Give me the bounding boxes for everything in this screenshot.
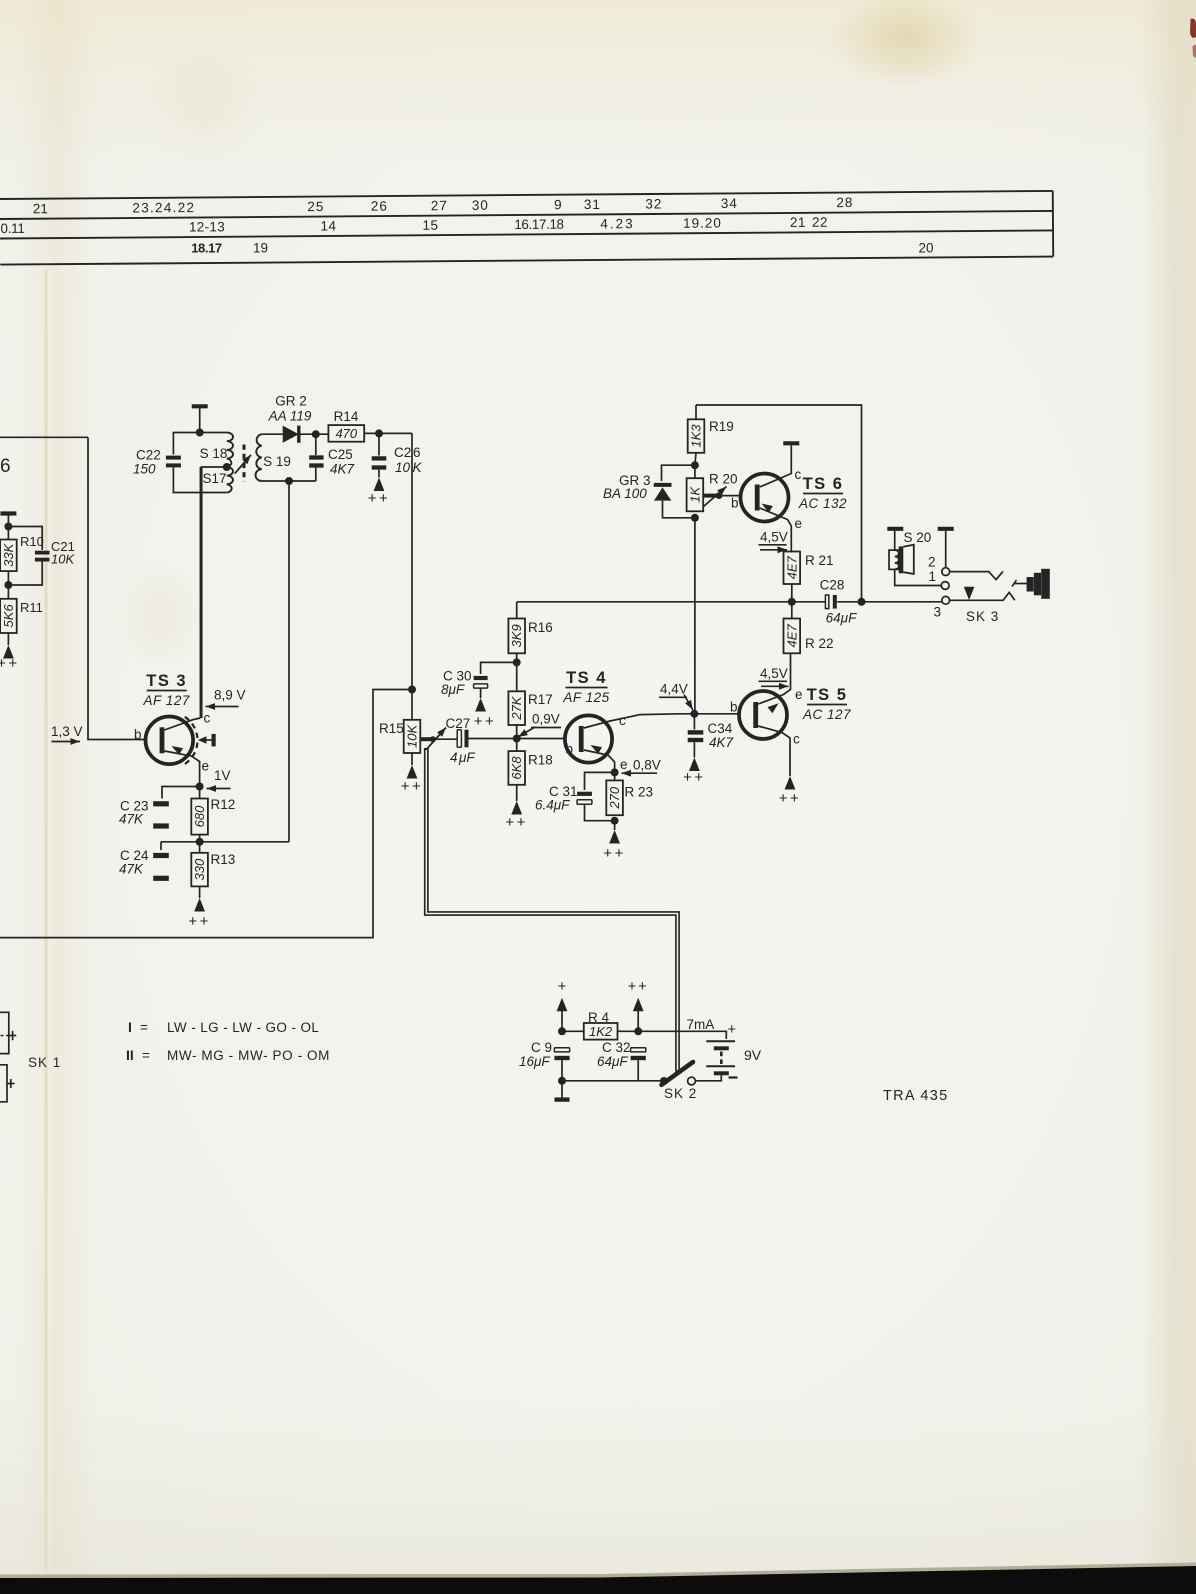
switch SK1 contact b bbox=[0, 1065, 7, 1102]
svg-text:R 23: R 23 bbox=[625, 785, 654, 800]
transistor TS6 bbox=[741, 474, 789, 522]
svg-text:BA 100: BA 100 bbox=[603, 486, 647, 501]
svg-text:10K: 10K bbox=[405, 724, 420, 748]
junction TS4 emitter node bbox=[611, 768, 619, 776]
capacitor C9 bbox=[554, 1048, 569, 1052]
svg-text:4,4V: 4,4V bbox=[660, 682, 688, 697]
svg-text:9: 9 bbox=[554, 197, 562, 212]
wire R20 to TS5 base node bbox=[694, 518, 696, 714]
svg-text:C25: C25 bbox=[328, 447, 353, 462]
junction R20 bottom node bbox=[691, 514, 699, 522]
svg-text:64μF: 64μF bbox=[826, 611, 857, 626]
svg-text:16.17.18: 16.17.18 bbox=[514, 217, 563, 232]
wire TS4 collector to TS5 base bbox=[640, 713, 739, 716]
svg-text:6.4μF: 6.4μF bbox=[535, 798, 570, 813]
svg-text:e: e bbox=[620, 757, 628, 772]
wire base feed TS3 bbox=[88, 437, 146, 739]
wire TS4 base bbox=[469, 738, 566, 740]
power arrow ++ below C34 bbox=[689, 758, 700, 772]
svg-text:47K: 47K bbox=[119, 812, 144, 827]
svg-text:S 18: S 18 bbox=[200, 446, 228, 461]
svg-text:++: ++ bbox=[505, 814, 528, 831]
chassis bar above S18 bbox=[192, 404, 208, 408]
capacitor C26 bbox=[378, 433, 380, 455]
svg-text:R 20: R 20 bbox=[709, 472, 738, 487]
svg-text:++: ++ bbox=[368, 490, 391, 507]
svg-text:15: 15 bbox=[422, 218, 438, 233]
svg-text:b: b bbox=[566, 742, 574, 757]
svg-text:+: + bbox=[728, 1022, 736, 1038]
svg-text:14: 14 bbox=[320, 218, 336, 233]
svg-text:64μF: 64μF bbox=[597, 1054, 628, 1069]
svg-text:R17: R17 bbox=[528, 692, 553, 707]
jack SK3 spring contact 3 bbox=[950, 592, 1015, 600]
potentiometer R15 bbox=[411, 690, 413, 720]
svg-text:++: ++ bbox=[401, 778, 424, 795]
svg-text:C34: C34 bbox=[708, 721, 733, 736]
wire R12 junction crossrail bbox=[161, 841, 289, 843]
jack SK3 contact 3 bbox=[942, 596, 950, 604]
svg-text:R19: R19 bbox=[709, 419, 734, 434]
transistor TS5 bbox=[739, 691, 787, 739]
svg-text:SK 3: SK 3 bbox=[966, 609, 999, 624]
resistor R22 bbox=[791, 602, 793, 619]
wire supply top bbox=[696, 405, 862, 602]
junction R10 top node bbox=[4, 523, 12, 531]
junction R23 bottom node bbox=[611, 817, 619, 825]
svg-text:0,8V: 0,8V bbox=[633, 758, 661, 773]
svg-text:++: ++ bbox=[779, 790, 802, 807]
junction rail output node bbox=[858, 598, 866, 606]
svg-text:4K7: 4K7 bbox=[330, 462, 355, 477]
svg-text:21: 21 bbox=[790, 215, 806, 230]
svg-text:28: 28 bbox=[836, 195, 853, 210]
svg-text:c: c bbox=[204, 711, 211, 726]
power arrow ++ below TS5 bbox=[785, 776, 796, 790]
svg-text:6: 6 bbox=[413, 445, 421, 460]
svg-text:1K2: 1K2 bbox=[589, 1024, 613, 1039]
svg-text:AC 132: AC 132 bbox=[798, 496, 847, 511]
svg-text:9V: 9V bbox=[744, 1047, 762, 1063]
switch SK1 contact a bbox=[0, 1012, 9, 1053]
power arrow ++ below C26 bbox=[374, 478, 385, 492]
svg-text:TS 6: TS 6 bbox=[803, 475, 844, 493]
junction S19 return node bbox=[285, 477, 293, 485]
svg-text:=: = bbox=[140, 1020, 148, 1035]
svg-text:18.17: 18.17 bbox=[191, 241, 222, 256]
coil S19 bbox=[256, 434, 262, 481]
resistor R4 bbox=[562, 1030, 584, 1032]
svg-text:4K7: 4K7 bbox=[709, 735, 734, 750]
capacitor C32 bbox=[631, 1048, 646, 1052]
mechanical link R15 to SK2 bbox=[426, 748, 677, 1072]
svg-text:MW- MG - MW- PO - OM: MW- MG - MW- PO - OM bbox=[167, 1048, 330, 1063]
svg-text:19.20: 19.20 bbox=[683, 215, 722, 230]
junction TS5 base node bbox=[690, 710, 698, 718]
svg-text:AF 127: AF 127 bbox=[143, 693, 190, 708]
resistor R19 bbox=[695, 405, 697, 419]
headphone plug bbox=[1014, 583, 1028, 585]
resistor R14 bbox=[328, 425, 364, 442]
svg-text:23.24.22: 23.24.22 bbox=[132, 200, 195, 215]
wire S19 return down bbox=[288, 481, 290, 842]
svg-text:8μF: 8μF bbox=[441, 682, 465, 697]
resistor R18 bbox=[508, 751, 525, 785]
svg-text:4,5V: 4,5V bbox=[760, 666, 788, 681]
wire R16 to junction bbox=[516, 653, 518, 691]
svg-text:R11: R11 bbox=[20, 600, 43, 615]
svg-text:C 32: C 32 bbox=[602, 1040, 631, 1055]
svg-text:e: e bbox=[795, 687, 803, 702]
svg-text:R 4: R 4 bbox=[588, 1010, 610, 1025]
svg-text:R10: R10 bbox=[20, 534, 44, 549]
svg-text:SK 1: SK 1 bbox=[28, 1055, 61, 1070]
svg-text:7mA: 7mA bbox=[687, 1017, 715, 1032]
junction coil top node bbox=[196, 429, 204, 437]
junction detector node bbox=[312, 430, 320, 438]
svg-text:R 22: R 22 bbox=[805, 636, 834, 651]
svg-text:25: 25 bbox=[307, 199, 324, 214]
jack SK3 contact 1 bbox=[941, 582, 949, 590]
capacitor C31 bbox=[585, 772, 615, 790]
svg-text:1K3: 1K3 bbox=[689, 424, 704, 448]
power arrow ++ below R23 bbox=[614, 821, 616, 830]
junction R19 R20 node bbox=[691, 461, 699, 469]
svg-text:b: b bbox=[731, 496, 739, 511]
svg-text:c: c bbox=[619, 713, 626, 728]
svg-text:680: 680 bbox=[192, 805, 207, 827]
resistor R13 bbox=[199, 842, 201, 853]
svg-text:LW - LG - LW - GO - OL: LW - LG - LW - GO - OL bbox=[167, 1020, 319, 1035]
power arrow ++ below R11 bbox=[7, 633, 9, 645]
svg-text:=: = bbox=[142, 1048, 150, 1063]
red corner mark bbox=[1190, 19, 1196, 38]
svg-text:C2: C2 bbox=[394, 445, 411, 460]
jack SK3 spring contact 2 bbox=[950, 571, 1003, 579]
svg-text:++: ++ bbox=[0, 655, 20, 672]
chassis bar above S20 bbox=[887, 527, 903, 531]
capacitor C28 bbox=[825, 595, 828, 609]
svg-text:S17: S17 bbox=[202, 471, 226, 486]
junction coil tap bbox=[223, 463, 231, 471]
svg-text:AC 127: AC 127 bbox=[802, 707, 851, 722]
power arrow ++ below R15 bbox=[411, 753, 413, 765]
svg-text:TS 5: TS 5 bbox=[807, 686, 848, 704]
capacitor C22 bbox=[173, 433, 199, 455]
wire table line 4 bbox=[0, 257, 1053, 265]
junction C9 top node bbox=[558, 1027, 566, 1035]
svg-text:26: 26 bbox=[371, 199, 388, 214]
svg-text:AF 125: AF 125 bbox=[562, 690, 609, 705]
svg-text:4.23: 4.23 bbox=[600, 216, 634, 231]
wire R17 to base node bbox=[516, 725, 518, 751]
power arrow ++ below C30 bbox=[480, 688, 482, 698]
svg-text:4: 4 bbox=[450, 750, 458, 765]
transistor TS4 bbox=[565, 715, 612, 762]
svg-text:R18: R18 bbox=[528, 753, 553, 768]
svg-text:b: b bbox=[134, 727, 142, 742]
svg-text:μF: μF bbox=[458, 750, 475, 765]
svg-text:6K8: 6K8 bbox=[509, 756, 524, 780]
svg-text:R13: R13 bbox=[211, 852, 236, 867]
wire table line 3 bbox=[0, 230, 1053, 238]
wire S17 tap to TS3 collector bbox=[202, 467, 227, 718]
diode GR2 bbox=[283, 426, 299, 443]
svg-text:0.11: 0.11 bbox=[0, 221, 24, 236]
svg-text:SK 2: SK 2 bbox=[664, 1086, 697, 1101]
core line bbox=[243, 445, 246, 482]
svg-text:e: e bbox=[202, 759, 210, 774]
svg-text:++: ++ bbox=[628, 979, 649, 995]
svg-text:2: 2 bbox=[928, 555, 936, 570]
svg-text:30: 30 bbox=[472, 198, 489, 213]
svg-text:e: e bbox=[795, 516, 803, 531]
svg-text:C22: C22 bbox=[136, 448, 161, 463]
jack SK3 moving contact bbox=[964, 587, 975, 600]
svg-text:++: ++ bbox=[683, 769, 706, 786]
power arrow ++ below R13 bbox=[199, 886, 201, 898]
svg-text:TS 3: TS 3 bbox=[146, 672, 187, 690]
junction rail R21 node bbox=[788, 598, 796, 606]
svg-text:TS 4: TS 4 bbox=[566, 669, 607, 687]
capacitor C24 bbox=[160, 842, 162, 850]
wire table right edge bbox=[1052, 191, 1055, 257]
svg-text:R14: R14 bbox=[334, 409, 359, 424]
svg-text:270: 270 bbox=[607, 786, 622, 809]
chassis bar below C9 bbox=[561, 1081, 563, 1098]
power arrow ++ below R18 bbox=[516, 785, 518, 801]
svg-text:20: 20 bbox=[918, 241, 933, 256]
svg-text:0,9V: 0,9V bbox=[532, 712, 560, 727]
svg-text:22: 22 bbox=[812, 215, 828, 230]
wire table line 1 bbox=[0, 191, 1053, 199]
svg-text:21: 21 bbox=[33, 201, 48, 216]
svg-text:R15: R15 bbox=[379, 721, 404, 736]
resistor R21 bbox=[784, 552, 801, 585]
svg-text:47K: 47K bbox=[119, 862, 144, 877]
svg-text:27K: 27K bbox=[509, 695, 524, 720]
svg-text:27: 27 bbox=[431, 198, 448, 213]
svg-text:19: 19 bbox=[253, 241, 268, 256]
svg-text:150: 150 bbox=[133, 462, 156, 477]
svg-text:C27: C27 bbox=[446, 716, 471, 731]
svg-text:330: 330 bbox=[192, 858, 207, 880]
svg-text:4E7: 4E7 bbox=[784, 555, 799, 579]
svg-text:3K9: 3K9 bbox=[509, 624, 524, 647]
svg-text:1V: 1V bbox=[214, 768, 231, 783]
svg-text:33K: 33K bbox=[1, 542, 16, 566]
svg-text:3: 3 bbox=[933, 605, 941, 620]
main output rail bbox=[517, 601, 827, 603]
svg-text:+: + bbox=[558, 979, 566, 995]
capacitor C21 bbox=[8, 527, 42, 551]
junction C9 bottom node bbox=[558, 1077, 566, 1085]
svg-text:31: 31 bbox=[584, 197, 601, 212]
junction R14 out node bbox=[375, 429, 383, 437]
junction TS3 emitter node bbox=[196, 783, 204, 791]
chassis bar SK3 feed bbox=[938, 527, 954, 531]
wire SK2 rail bbox=[562, 1080, 664, 1082]
resistor R23 bbox=[614, 772, 616, 780]
coil S18 bbox=[200, 432, 227, 434]
junction C32 top node bbox=[634, 1027, 642, 1035]
junction R16 R17 node bbox=[513, 658, 521, 666]
svg-text:5K6: 5K6 bbox=[1, 604, 16, 628]
svg-text:S 20: S 20 bbox=[904, 530, 932, 545]
svg-text:1: 1 bbox=[928, 569, 936, 584]
shield TS3 bbox=[185, 717, 198, 764]
svg-text:C28: C28 bbox=[820, 578, 845, 593]
svg-text:S 19: S 19 bbox=[263, 454, 291, 469]
svg-text:8,9 V: 8,9 V bbox=[214, 688, 246, 703]
loudspeaker S20 bbox=[889, 550, 899, 569]
svg-text:6: 6 bbox=[0, 456, 11, 477]
wire TS6 base bbox=[719, 495, 741, 497]
svg-text:10: 10 bbox=[395, 460, 411, 475]
svg-text:++: ++ bbox=[188, 913, 211, 930]
switch SK2 bbox=[660, 1077, 668, 1085]
jack SK3 contact 2 bbox=[942, 568, 950, 576]
page bottom edge bbox=[0, 1566, 1196, 1594]
capacitor C25 bbox=[315, 434, 317, 455]
svg-text:16μF: 16μF bbox=[519, 1054, 550, 1069]
coil S17 bbox=[227, 467, 233, 493]
wire TS3 collector up bbox=[199, 467, 201, 718]
junction TS4 base node bbox=[513, 735, 521, 743]
chassis bar above R10 bbox=[0, 511, 16, 515]
svg-text:K: K bbox=[413, 460, 423, 475]
svg-text:I: I bbox=[128, 1019, 132, 1035]
resistor R17 bbox=[508, 691, 525, 725]
svg-text:1K: 1K bbox=[687, 486, 702, 503]
junction R10 bottom node bbox=[4, 581, 12, 589]
junction volume top node bbox=[408, 686, 416, 694]
svg-text:1,3 V: 1,3 V bbox=[51, 724, 83, 739]
resistor R20 bbox=[687, 478, 704, 511]
resistor R12 bbox=[199, 787, 201, 799]
svg-text:C 9: C 9 bbox=[531, 1040, 552, 1055]
wire table line 2 bbox=[0, 211, 1053, 219]
wire detector to volume control bbox=[411, 433, 413, 689]
svg-text:12-13: 12-13 bbox=[189, 219, 225, 234]
svg-text:b: b bbox=[730, 700, 738, 715]
diode GR3 bbox=[662, 465, 695, 481]
svg-text:R16: R16 bbox=[528, 620, 553, 635]
svg-text:c: c bbox=[795, 467, 802, 482]
svg-text:4E7: 4E7 bbox=[784, 624, 799, 648]
svg-text:TRA 435: TRA 435 bbox=[883, 1088, 949, 1104]
svg-text:470: 470 bbox=[335, 426, 357, 441]
svg-text:32: 32 bbox=[645, 196, 662, 211]
resistor R16 bbox=[516, 602, 518, 619]
wire S20 to SK3 contact 1 bbox=[895, 569, 942, 585]
resistor R11 bbox=[7, 571, 9, 599]
resistor R10 bbox=[7, 527, 9, 540]
junction R12 R13 node bbox=[196, 838, 204, 846]
wire left block top edge bbox=[0, 436, 88, 438]
wire R19 to R20 bbox=[695, 453, 696, 478]
svg-text:R12: R12 bbox=[211, 797, 236, 812]
wire R4 to battery bbox=[618, 1031, 727, 1039]
svg-text:4,5V: 4,5V bbox=[760, 530, 788, 545]
transistor TS3 bbox=[146, 717, 194, 765]
svg-text:R 21: R 21 bbox=[805, 553, 834, 568]
capacitor C34 bbox=[693, 714, 695, 730]
svg-text:II: II bbox=[126, 1047, 134, 1063]
svg-text:10K: 10K bbox=[51, 552, 75, 567]
svg-text:++: ++ bbox=[474, 713, 497, 730]
wire AVC return bbox=[0, 690, 412, 938]
capacitor C27 bbox=[433, 738, 457, 740]
capacitor C30 bbox=[481, 662, 517, 674]
svg-text:c: c bbox=[793, 732, 800, 747]
svg-text:34: 34 bbox=[721, 196, 738, 211]
svg-text:GR 2: GR 2 bbox=[275, 394, 307, 409]
tuning arrow bbox=[235, 455, 251, 474]
wire battery negative bbox=[695, 1075, 721, 1081]
svg-text:++: ++ bbox=[603, 845, 626, 862]
svg-text:AA 119: AA 119 bbox=[268, 409, 312, 424]
chassis bar TS6 collector bbox=[783, 441, 799, 445]
capacitor C23 bbox=[162, 787, 200, 799]
